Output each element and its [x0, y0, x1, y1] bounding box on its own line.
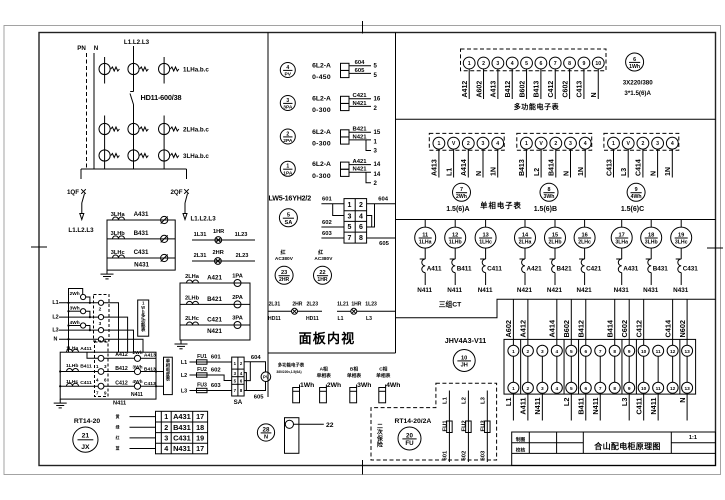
terminal squares 2PA	[341, 130, 350, 137]
svg-text:FU3: FU3	[197, 383, 207, 389]
wire 604 panel	[367, 203, 396, 205]
CT circle 16 2LHc	[584, 220, 586, 228]
svg-text:18: 18	[196, 423, 204, 432]
CT circle 19 3LHc	[680, 220, 682, 228]
wire row B431	[107, 238, 175, 240]
svg-text:B431: B431	[653, 266, 669, 273]
wire terminal 10	[597, 69, 599, 99]
svg-text:A411: A411	[80, 346, 92, 352]
wire 605 panel	[367, 237, 396, 239]
terminal 1 meter 4Wh	[608, 137, 620, 149]
terminal circle 28 N	[257, 424, 274, 441]
panel meter 4/PV	[280, 63, 295, 78]
wire A411 bottom stub	[527, 393, 529, 420]
svg-text:B413: B413	[519, 159, 526, 176]
wire fuse column L3	[486, 391, 488, 463]
svg-text:2Wh: 2Wh	[70, 291, 80, 297]
svg-text:C413: C413	[577, 81, 584, 98]
wire row B421	[180, 303, 250, 305]
svg-text:2: 2	[164, 423, 168, 432]
svg-text:2: 2	[374, 105, 378, 112]
wire terminal box column 5	[570, 356, 572, 382]
svg-text:PN: PN	[77, 45, 86, 52]
svg-text:L1.L2.L3: L1.L2.L3	[191, 216, 217, 223]
terminal 5 multifunction meter	[521, 57, 533, 69]
svg-text:N421: N421	[517, 287, 533, 294]
svg-text:黄: 黄	[115, 414, 120, 419]
svg-text:3: 3	[541, 386, 544, 392]
wire terminal meter 4Wh 1N	[671, 149, 673, 177]
svg-text:3: 3	[541, 349, 544, 355]
current transformer 2LHc humps	[187, 322, 199, 325]
lamp circle 23 2HR	[275, 266, 293, 284]
wire A602 top stub	[512, 299, 514, 345]
fuse FU3	[197, 388, 208, 392]
svg-text:8: 8	[568, 61, 571, 67]
svg-text:2LHa: 2LHa	[519, 239, 532, 245]
fuse FU1	[197, 360, 208, 364]
current transformer 1LH phase c	[163, 57, 165, 84]
svg-text:2HR: 2HR	[213, 250, 224, 256]
selector contact N	[98, 337, 103, 342]
svg-text:1: 1	[348, 202, 352, 209]
svg-text:N421: N421	[352, 167, 367, 173]
terminal 2 meter 2Wh	[462, 137, 474, 149]
wire row B out	[141, 371, 164, 373]
svg-text:1QF: 1QF	[67, 189, 79, 196]
svg-text:A412: A412	[462, 81, 469, 98]
wire selector out L1	[104, 303, 119, 352]
current transformer 3LHa humps	[113, 217, 125, 220]
svg-text:HD11-600/38: HD11-600/38	[141, 93, 182, 102]
svg-text:A602: A602	[476, 81, 483, 98]
svg-text:L1.L2.L3: L1.L2.L3	[124, 39, 150, 46]
svg-text:A421: A421	[527, 266, 543, 273]
terminal box top contact 13	[682, 345, 693, 356]
wire CT 2LHc down	[584, 248, 586, 259]
svg-text:1: 1	[234, 361, 237, 366]
svg-text:绿: 绿	[116, 424, 120, 429]
svg-text:C412: C412	[634, 320, 643, 338]
svg-text:8: 8	[613, 349, 616, 355]
svg-text:1L23: 1L23	[365, 301, 377, 307]
svg-text:3: 3	[99, 321, 102, 327]
svg-text:B602: B602	[562, 320, 571, 338]
current transformer 3LH phase b	[128, 150, 139, 161]
svg-text:A413: A413	[491, 81, 498, 98]
svg-text:1Wh: 1Wh	[300, 382, 314, 389]
svg-text:表: 表	[165, 376, 171, 383]
svg-text:L3: L3	[52, 327, 58, 333]
panel bottom edge	[268, 352, 396, 354]
svg-text:4: 4	[164, 444, 168, 453]
CT winding 2LHc	[579, 258, 585, 260]
terminal 1 multifunction meter	[463, 57, 475, 69]
svg-text:1N: 1N	[578, 167, 585, 176]
terminal box top contact 10	[638, 345, 649, 356]
terminal box bottom contact 7	[595, 382, 606, 393]
terminal box top contact 12	[667, 345, 678, 356]
CT circle 14 2LHa	[524, 220, 526, 228]
wire N411 bottom stub	[599, 393, 601, 420]
svg-text:A411: A411	[427, 266, 442, 273]
wire row C to meter	[104, 385, 134, 387]
wire CT 1LHc down	[485, 248, 487, 259]
terminal 3 meter 4Wh	[652, 137, 664, 149]
panel meter 2/2PA	[280, 129, 295, 144]
svg-text:N431: N431	[614, 287, 630, 294]
svg-text:C421: C421	[586, 266, 602, 273]
selector contact row B	[98, 369, 104, 375]
wire selector out L3	[104, 330, 134, 352]
terminal squares 1PA	[341, 162, 350, 169]
terminal box top contact 3	[537, 345, 548, 356]
fold mark top	[362, 21, 364, 34]
breaker 1QF	[80, 169, 82, 179]
svg-text:多功能电子表: 多功能电子表	[514, 102, 560, 111]
wire row A step	[87, 352, 98, 358]
ammeter 3PA	[234, 322, 241, 329]
panel right edge divider	[395, 33, 397, 354]
svg-text:602: 602	[211, 368, 222, 374]
svg-text:5: 5	[374, 62, 378, 69]
wire L2 to grid with jog	[190, 375, 232, 381]
svg-text:22: 22	[326, 422, 334, 429]
terminal box bottom contact 13	[682, 382, 693, 393]
svg-text:0-300: 0-300	[312, 173, 331, 180]
wire N602 top stub	[686, 299, 688, 345]
svg-text:A421: A421	[352, 159, 367, 165]
wire CT 1LHb down	[454, 248, 456, 259]
wire terminal box column 2	[527, 356, 529, 382]
svg-text:1LHa: 1LHa	[66, 345, 78, 351]
terminal box top contact 8	[609, 345, 620, 356]
wire B412 top stub	[585, 299, 587, 345]
wire CT 2LHb down	[554, 248, 556, 259]
terminal 8 multifunction meter	[564, 57, 576, 69]
svg-text:2LHb: 2LHb	[549, 239, 562, 245]
switch HD11-600/38	[130, 91, 133, 93]
fuse FU2	[197, 373, 208, 377]
meter body 3Wh	[350, 388, 357, 403]
terminal box bottom contact 6	[580, 382, 591, 393]
svg-text:1L21: 1L21	[337, 301, 349, 307]
wire 603	[321, 237, 344, 239]
svg-text:4: 4	[96, 378, 99, 383]
terminal 9 multifunction meter	[578, 57, 590, 69]
svg-text:6: 6	[584, 349, 587, 355]
fold mark bottom	[362, 460, 364, 475]
wire 605 from PV	[244, 382, 265, 391]
svg-text:604: 604	[355, 60, 366, 66]
svg-text:5: 5	[348, 224, 352, 231]
svg-text:7: 7	[599, 386, 602, 392]
wire terminal meter 3Wh 1N	[584, 149, 586, 177]
wire terminal 9	[583, 69, 585, 99]
svg-text:N602: N602	[678, 320, 687, 338]
svg-text:N431: N431	[673, 287, 689, 294]
wire terminal meter 3Wh L2	[540, 149, 542, 177]
wire C412 top stub	[643, 299, 645, 345]
svg-text:5: 5	[374, 72, 378, 79]
wire LW5 jumper cell4	[367, 216, 372, 228]
wire 605	[349, 72, 371, 74]
svg-text:8: 8	[359, 235, 363, 242]
terminal squares 3PA	[341, 96, 350, 103]
divider left section / panel	[267, 33, 269, 398]
lamp 2HR	[215, 258, 222, 265]
wire CT 3LHa down	[621, 248, 623, 259]
svg-text:B412: B412	[505, 81, 512, 98]
svg-text:B411: B411	[577, 398, 586, 415]
svg-text:B413: B413	[144, 366, 156, 372]
wire terminal box column 8	[614, 356, 616, 382]
wire row C out	[141, 385, 164, 387]
wire terminal box column 6	[585, 356, 587, 382]
svg-text:1PA: 1PA	[232, 274, 243, 280]
svg-text:17: 17	[196, 412, 204, 421]
svg-text:C431: C431	[173, 433, 191, 442]
svg-text:2: 2	[527, 349, 530, 355]
terminal box bottom contact 5	[566, 382, 577, 393]
meter circle 6 1Wh	[626, 53, 644, 71]
fuse FU1	[447, 421, 453, 433]
neutral busbar 22	[285, 418, 299, 454]
wire terminal box column 3	[541, 356, 543, 382]
wire terminal 1	[468, 69, 470, 99]
wire selector N down	[68, 339, 70, 352]
svg-text:N: N	[563, 171, 570, 176]
svg-text:2: 2	[374, 180, 378, 187]
svg-text:1: 1	[96, 364, 99, 369]
svg-text:L1: L1	[338, 316, 344, 322]
svg-text:V: V	[626, 141, 630, 147]
wire A421	[349, 164, 371, 166]
terminal 7 multifunction meter	[549, 57, 561, 69]
svg-text:L1: L1	[52, 300, 58, 306]
panel meter 1/1PA	[280, 161, 295, 176]
wire selector left bus	[68, 289, 70, 340]
current transformer 1LH phase a	[104, 57, 106, 84]
panel meter 3/3PA	[280, 96, 295, 111]
wire C411 bottom stub	[643, 393, 645, 420]
terminal box bottom contact 2	[522, 382, 533, 393]
wire terminal 5	[526, 69, 528, 99]
dashed box single phase meter 2Wh	[429, 133, 504, 150]
wire N411 bottom stub	[541, 393, 543, 420]
svg-text:A421: A421	[207, 275, 222, 282]
svg-text:RT14-20/2A: RT14-20/2A	[394, 418, 431, 425]
wire C602 top stub	[628, 299, 630, 345]
svg-text:605: 605	[355, 68, 366, 74]
svg-text:17: 17	[196, 444, 204, 453]
terminal V meter 2Wh	[448, 137, 460, 149]
svg-text:C414: C414	[663, 319, 672, 337]
svg-text:10: 10	[595, 61, 601, 67]
wire 601 branch	[333, 204, 344, 216]
svg-text:6L2-A: 6L2-A	[312, 161, 331, 168]
terminal box top contact 9	[624, 345, 635, 356]
svg-text:4: 4	[240, 371, 243, 376]
meter label box single-phase	[164, 357, 173, 394]
svg-text:L3: L3	[181, 389, 187, 395]
wire terminal 7	[554, 69, 556, 99]
wire terminal meter 2Wh A413	[438, 149, 440, 177]
svg-text:1.5(6)B: 1.5(6)B	[534, 206, 557, 213]
svg-text:A431: A431	[623, 266, 639, 273]
terminal squares PV	[341, 63, 350, 70]
wire L1 to grid	[190, 361, 232, 363]
wire 604 to PV	[244, 362, 265, 372]
svg-text:次: 次	[377, 428, 383, 436]
svg-text:2: 2	[467, 141, 470, 147]
svg-text:603: 603	[211, 383, 222, 389]
svg-text:12: 12	[670, 349, 676, 355]
wire B602 top stub	[570, 299, 572, 345]
svg-text:6: 6	[633, 57, 636, 63]
svg-text:1LHa.b.c: 1LHa.b.c	[183, 67, 209, 74]
wire terminal meter 2Wh N	[482, 149, 484, 177]
svg-text:红: 红	[280, 249, 285, 256]
svg-text:N: N	[94, 45, 99, 52]
svg-text:1LHb: 1LHb	[449, 239, 462, 245]
svg-text:2PA: 2PA	[283, 138, 293, 144]
wire N	[59, 338, 98, 340]
svg-text:1: 1	[512, 386, 515, 392]
svg-text:1: 1	[525, 141, 528, 147]
svg-text:FU2: FU2	[197, 367, 207, 373]
svg-text:C相: C相	[379, 366, 387, 373]
terminal table	[156, 411, 208, 454]
svg-text:N431: N431	[173, 444, 191, 453]
meter body 1Wh	[293, 388, 300, 403]
svg-text:C413: C413	[606, 159, 613, 176]
svg-text:N411: N411	[591, 398, 600, 415]
svg-text:602: 602	[462, 450, 468, 461]
svg-text:L3: L3	[366, 316, 372, 322]
terminal V meter 3Wh	[535, 137, 547, 149]
svg-text:L1: L1	[504, 398, 513, 407]
svg-text:3LHb: 3LHb	[645, 239, 658, 245]
ammeter 1PA	[234, 280, 241, 287]
svg-text:B411: B411	[80, 364, 92, 370]
svg-text:B431: B431	[134, 230, 149, 237]
svg-text:6L2-A: 6L2-A	[312, 62, 331, 69]
svg-text:2PA: 2PA	[232, 295, 243, 301]
svg-text:605: 605	[254, 394, 265, 400]
wire N bottom stub	[686, 393, 688, 420]
terminal 10 multifunction meter	[592, 57, 604, 69]
svg-text:605: 605	[379, 241, 390, 247]
wire A414 top stub	[556, 299, 558, 345]
svg-text:20: 20	[406, 432, 413, 439]
wire row C421	[180, 324, 250, 326]
svg-text:11: 11	[656, 386, 661, 392]
wire L3	[59, 329, 98, 331]
svg-text:JX: JX	[81, 444, 90, 451]
svg-text:601: 601	[211, 355, 222, 361]
svg-text:N: N	[650, 171, 657, 176]
svg-text:6: 6	[539, 61, 542, 67]
svg-text:JH: JH	[461, 363, 468, 369]
svg-text:C431: C431	[134, 249, 149, 256]
svg-text:N411: N411	[447, 287, 462, 294]
svg-text:B421: B421	[207, 296, 222, 303]
wire terminal 2	[483, 69, 485, 99]
svg-text:5: 5	[570, 349, 573, 355]
wire terminal box column 4	[556, 356, 558, 382]
svg-text:C412: C412	[548, 81, 555, 98]
svg-text:PV: PV	[285, 72, 292, 78]
svg-text:C411: C411	[634, 398, 643, 415]
selector dashed box lower	[95, 342, 109, 397]
svg-text:4Wh: 4Wh	[631, 194, 642, 200]
meter circle row A431	[161, 216, 168, 223]
CT winding 3LHb	[646, 258, 652, 260]
svg-text:B413: B413	[534, 81, 541, 98]
wire N421	[349, 139, 371, 141]
svg-text:N421: N421	[577, 287, 593, 294]
terminal box top contact 5	[566, 345, 577, 356]
svg-text:蓝: 蓝	[116, 446, 120, 451]
terminal box top contact 4	[551, 345, 562, 356]
svg-text:3LHc: 3LHc	[675, 239, 688, 245]
svg-text:SA: SA	[234, 399, 243, 406]
wire lamp row 2	[192, 260, 255, 262]
wire 604 branch	[367, 204, 375, 227]
ground PA box	[180, 340, 182, 344]
wire PN dashed line	[86, 53, 88, 169]
terminal box bottom contact 4	[551, 382, 562, 393]
svg-text:1LHc: 1LHc	[66, 379, 78, 385]
svg-text:L1: L1	[181, 360, 187, 366]
svg-text:险: 险	[377, 441, 383, 449]
svg-text:A413: A413	[144, 352, 156, 358]
wire selector out L2	[104, 317, 128, 352]
wire L1	[59, 302, 98, 304]
svg-text:C421: C421	[352, 93, 367, 99]
terminal box bottom contact 8	[609, 382, 620, 393]
svg-text:FU3: FU3	[481, 420, 487, 432]
svg-text:N411: N411	[131, 392, 143, 398]
dashed box multifunction meter terminals	[461, 49, 607, 71]
svg-text:1:1: 1:1	[689, 435, 697, 441]
terminal 3 multifunction meter	[492, 57, 504, 69]
CT circle 17 3LHa	[621, 220, 623, 228]
current transformer 2LH phase b	[128, 123, 139, 134]
meter 1Wh label box	[138, 300, 149, 336]
wire lamp row 1	[192, 239, 255, 241]
wire B414 top stub	[614, 299, 616, 345]
wire L3 to grid	[190, 390, 232, 392]
wire elbow to 3	[366, 140, 371, 151]
svg-text:多功能电子表: 多功能电子表	[278, 362, 305, 369]
current transformer 1LHb humps	[67, 369, 79, 372]
svg-text:A414: A414	[548, 319, 557, 337]
wire panel lamp row left	[269, 310, 292, 312]
terminal 3 meter 3Wh	[565, 137, 577, 149]
terminal 1 meter 3Wh	[521, 137, 533, 149]
wire fuse column L1	[448, 391, 450, 463]
fuse circle 20 FU	[398, 427, 421, 450]
svg-text:2: 2	[554, 141, 557, 147]
wire CT 3LHb down	[650, 248, 652, 259]
box PA ammeter group	[180, 283, 250, 340]
svg-text:15: 15	[374, 129, 381, 136]
svg-text:FU: FU	[405, 440, 414, 447]
svg-text:N411: N411	[649, 398, 658, 415]
divider under single-phase meter band	[396, 219, 716, 221]
